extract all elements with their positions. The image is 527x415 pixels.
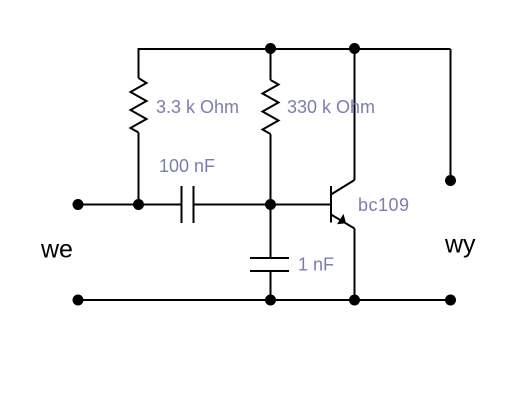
svg-text:3.3 k Ohm: 3.3 k Ohm — [156, 97, 239, 117]
svg-text:100 nF: 100 nF — [159, 156, 215, 176]
svg-text:1 nF: 1 nF — [298, 255, 334, 275]
svg-text:330 k Ohm: 330 k Ohm — [287, 97, 375, 117]
svg-text:we: we — [40, 236, 73, 264]
svg-text:wy: wy — [444, 231, 476, 259]
svg-text:bc109: bc109 — [358, 195, 410, 215]
